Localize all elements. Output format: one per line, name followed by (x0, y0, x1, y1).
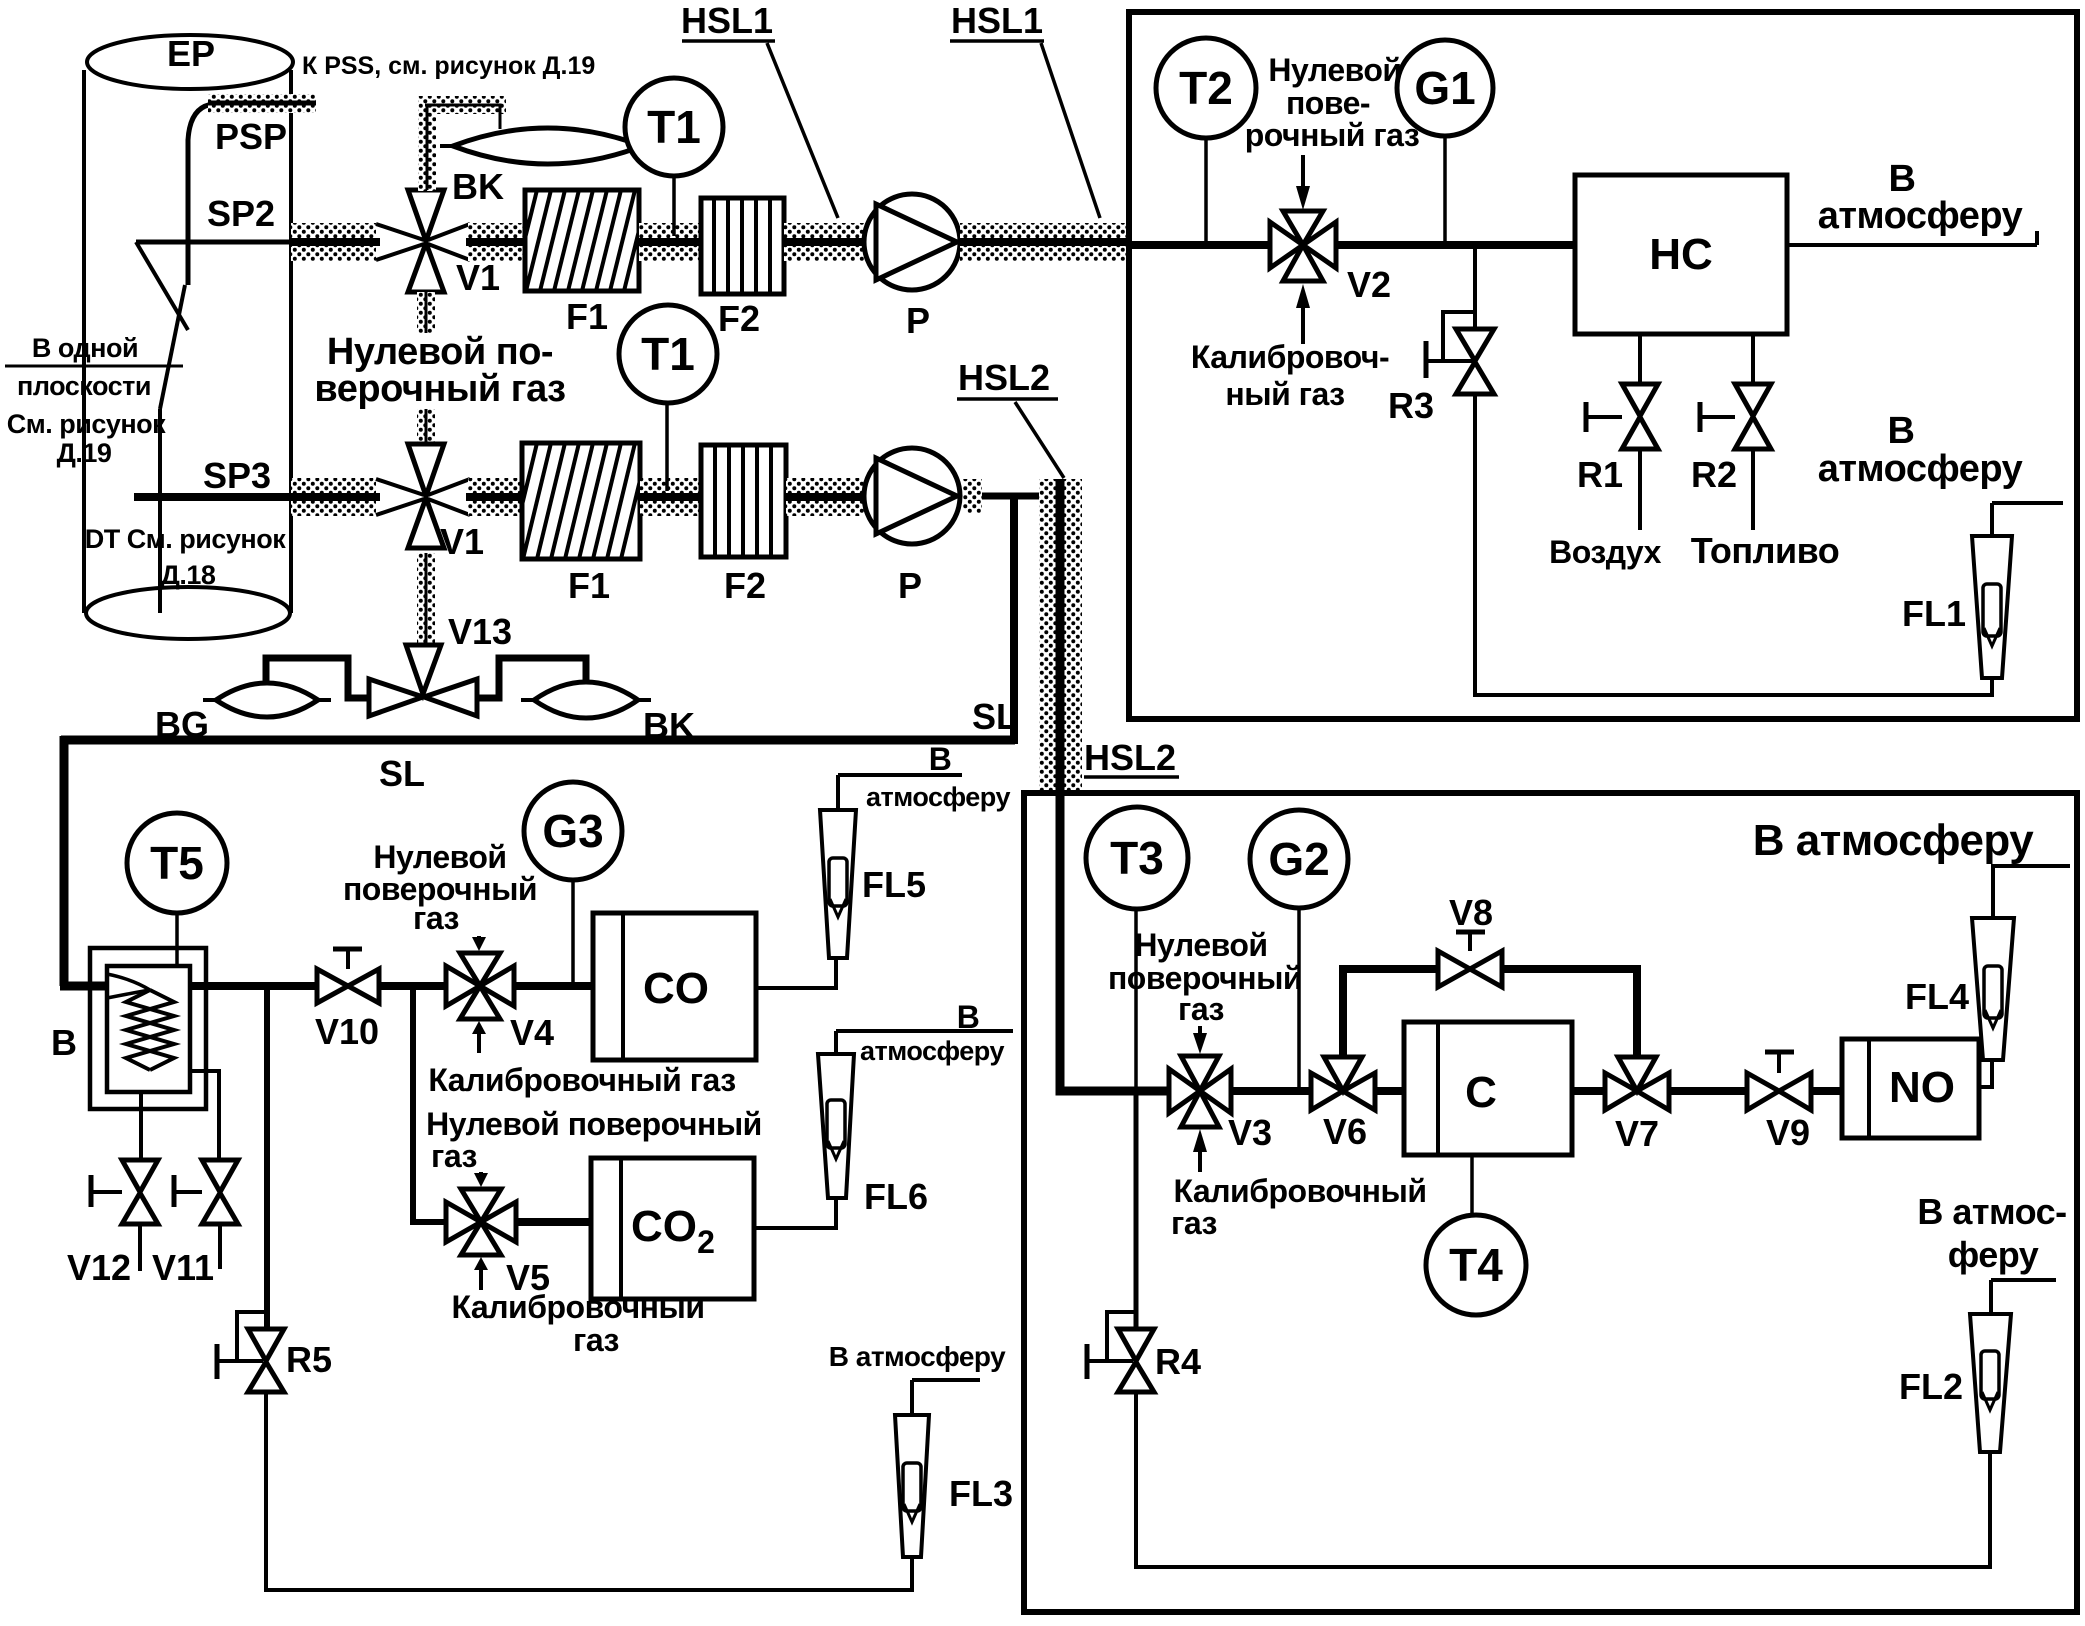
valve V2 (1270, 211, 1336, 281)
wire SL tee down (1010, 497, 1018, 744)
valve V11 stem (190, 1071, 219, 1160)
cooler B inner (107, 966, 190, 1092)
arrow zero gas into V2 (1301, 155, 1305, 190)
svg-text:FL6: FL6 (864, 1176, 928, 1217)
svg-text:T3: T3 (1110, 832, 1164, 884)
svg-text:V10: V10 (315, 1011, 379, 1052)
wire SL main horizontal (61, 736, 1015, 745)
svg-text:газ: газ (431, 1138, 477, 1174)
svg-text:Д.19: Д.19 (57, 438, 112, 468)
svg-text:NO: NO (1889, 1063, 1955, 1112)
svg-text:R4: R4 (1155, 1341, 1201, 1382)
wire V13 to BG (266, 658, 369, 698)
instrument T1 lower (665, 403, 669, 491)
svg-text:HSL1: HSL1 (681, 0, 773, 41)
instrument T4 (1470, 1155, 1474, 1215)
svg-text:FL1: FL1 (1902, 593, 1966, 634)
wire SP3 heated band wall to valve (291, 478, 376, 516)
probe inner diagonal b (136, 242, 188, 330)
probe inner diagonal a (160, 285, 185, 409)
svg-text:G1: G1 (1414, 62, 1475, 114)
bag BG (216, 683, 318, 717)
svg-text:В: В (929, 741, 952, 777)
wire junction down to V5 (413, 986, 446, 1222)
valve V5 (446, 1189, 516, 1255)
svg-text:HSL2: HSL2 (958, 357, 1050, 398)
bag BK lower (534, 682, 638, 718)
regulator R1 (1638, 334, 1642, 384)
wire SL left down to cooler (60, 736, 69, 986)
svg-text:В: В (957, 999, 980, 1035)
cooler B outer (90, 948, 206, 1109)
svg-text:CO: CO (643, 964, 709, 1013)
wire NO to FL4 (1979, 1060, 1992, 1087)
svg-text:P: P (906, 300, 930, 341)
svg-text:газ: газ (1171, 1205, 1217, 1241)
arrow cal gas into V3 (1193, 1129, 1207, 1152)
svg-text:феру: феру (1948, 1234, 2039, 1275)
wire main line box1 (1129, 241, 1270, 249)
wire B to R5 junction (264, 986, 270, 1330)
wire HSL2 inside box2 (1060, 793, 1169, 1091)
analyzer NO (1842, 1039, 1979, 1138)
svg-text:BK: BK (452, 166, 504, 207)
svg-text:Нулевой: Нулевой (1268, 52, 1401, 88)
wire SP2 cone left (376, 224, 424, 260)
svg-text:C: C (1465, 1068, 1497, 1117)
svg-text:Топливо: Топливо (1691, 530, 1840, 571)
svg-text:SP3: SP3 (203, 455, 271, 496)
svg-text:В атмос-: В атмос- (1917, 1191, 2066, 1232)
svg-text:В атмосферу: В атмосферу (1753, 816, 2034, 865)
instrument T3 (1134, 909, 1138, 1087)
regulator R3 (1473, 245, 1477, 329)
svg-text:R3: R3 (1388, 385, 1434, 426)
valve V1 upper (408, 190, 444, 292)
svg-text:V1: V1 (456, 257, 500, 298)
svg-text:F2: F2 (724, 565, 766, 606)
instrument T5 (175, 913, 179, 966)
wire SP2 heated band wall to valve (291, 223, 376, 261)
svg-text:Калибровоч-: Калибровоч- (1191, 339, 1389, 375)
wire CO2 to FL6 (754, 1198, 836, 1228)
instrument T2 (1204, 138, 1208, 241)
valve V1 lower (408, 444, 444, 548)
arrow zero gas into V4 (477, 936, 481, 940)
svg-text:ный газ: ный газ (1225, 376, 1344, 412)
regulator R2 (1751, 334, 1755, 384)
valve V12 (122, 1160, 158, 1224)
regulator R4 (1134, 1091, 1139, 1329)
probe SP2 line (136, 240, 296, 245)
svg-text:В одной: В одной (32, 333, 138, 363)
wire C to V7 (1572, 1087, 1605, 1095)
svg-text:B: B (51, 1022, 77, 1063)
svg-text:плоскости: плоскости (17, 371, 151, 401)
svg-text:CO: CO (631, 1202, 697, 1251)
svg-text:Калибровочный: Калибровочный (1174, 1173, 1427, 1209)
svg-text:пове-: пове- (1286, 85, 1370, 121)
cooler B taper (107, 974, 150, 998)
svg-text:FL3: FL3 (949, 1473, 1013, 1514)
svg-text:PSP: PSP (215, 116, 287, 157)
probe inner vertical (158, 409, 162, 613)
box analyzer cabinet NO (1024, 793, 2077, 1612)
valve V3 (1169, 1056, 1231, 1127)
analyzer CO2 (591, 1158, 754, 1299)
wire V6 to C (1375, 1087, 1404, 1095)
valve V10 (317, 969, 379, 1003)
svg-text:R1: R1 (1577, 454, 1623, 495)
wire SP2 cone right (428, 224, 470, 260)
arrow zero gas into V3 (1198, 1026, 1202, 1034)
valve V7 (1605, 1057, 1669, 1110)
svg-text:газ: газ (573, 1322, 619, 1358)
instrument G1 (1443, 136, 1447, 241)
svg-text:V8: V8 (1449, 892, 1493, 933)
svg-text:V7: V7 (1615, 1113, 1659, 1154)
svg-text:К PSS, см. рисунок Д.19: К PSS, см. рисунок Д.19 (302, 52, 595, 80)
valve V12 stem (139, 1092, 143, 1160)
filter F2 upper (701, 198, 784, 294)
wire band F1-F2 upper (639, 223, 701, 261)
svg-text:атмосферу: атмосферу (866, 782, 1010, 812)
probe PSP vertical (188, 104, 214, 285)
svg-text:FL4: FL4 (1905, 976, 1969, 1017)
svg-text:В атмосферу: В атмосферу (829, 1341, 1006, 1372)
svg-text:G3: G3 (542, 805, 603, 857)
box analyzer cabinet HC (1129, 12, 2077, 719)
svg-text:V1: V1 (440, 521, 484, 562)
wire V8 bypass to V7 (1502, 969, 1637, 1057)
wire CO to FL5 (756, 958, 836, 988)
svg-text:SL: SL (972, 696, 1018, 737)
svg-text:V13: V13 (448, 611, 512, 652)
instrument G2 (1297, 908, 1301, 1087)
svg-text:V4: V4 (510, 1012, 554, 1053)
svg-text:См. рисунок: См. рисунок (7, 409, 166, 439)
analyzer CO (593, 913, 756, 1060)
svg-text:V3: V3 (1228, 1112, 1272, 1153)
wire R3 drain to FL1 (1475, 394, 1992, 695)
wire band F1-F2 lower (640, 478, 701, 516)
flowmeter FL6 (818, 1054, 854, 1198)
svg-text:P: P (898, 565, 922, 606)
svg-text:Воздух: Воздух (1549, 534, 1662, 570)
analyzer C (1404, 1022, 1572, 1155)
wire band F2-P upper (784, 223, 864, 261)
svg-text:V11: V11 (152, 1247, 214, 1288)
flowmeter FL5 (820, 810, 856, 958)
svg-text:F1: F1 (566, 296, 608, 337)
wire P to HSL2 corner (982, 493, 1045, 500)
svg-text:EP: EP (167, 33, 215, 74)
svg-text:газ: газ (1178, 991, 1224, 1027)
svg-text:HSL2: HSL2 (1084, 737, 1176, 778)
svg-text:F1: F1 (568, 565, 610, 606)
svg-text:В: В (1888, 410, 1915, 452)
wire band P to box upper (960, 223, 1129, 261)
svg-text:Нулевой поверочный: Нулевой поверочный (426, 1106, 762, 1142)
probe PSP heated stub (208, 94, 316, 113)
wire V3 to V6 (1231, 1087, 1311, 1095)
valve V4 (446, 953, 514, 1019)
svg-text:T1: T1 (647, 101, 701, 153)
svg-text:FL5: FL5 (862, 864, 926, 905)
wire V6 bypass to V8 (1343, 969, 1438, 1057)
probe SP3 line (134, 493, 296, 501)
filter F1 lower (522, 443, 640, 559)
svg-text:T1: T1 (641, 328, 695, 380)
svg-text:газ: газ (413, 900, 459, 936)
svg-text:V6: V6 (1323, 1111, 1367, 1152)
instrument G3 (571, 880, 575, 982)
svg-text:верочный газ: верочный газ (314, 368, 565, 410)
wire V4 to CO (514, 982, 593, 990)
cooler B coil (126, 990, 174, 1070)
wire V9 to NO (1811, 1087, 1842, 1095)
flowmeter FL1 (1990, 503, 1994, 536)
exhaust pipe EP cylinder (84, 35, 293, 639)
svg-text:Нулевой по-: Нулевой по- (327, 331, 553, 373)
svg-text:2: 2 (697, 1224, 715, 1260)
valve V9 (1747, 1073, 1811, 1110)
svg-text:R2: R2 (1691, 454, 1737, 495)
wire V5 to CO2 (516, 1218, 591, 1226)
svg-text:T5: T5 (150, 837, 204, 889)
flowmeter FL4 (1972, 918, 2014, 1060)
svg-text:Д.18: Д.18 (161, 560, 216, 590)
svg-text:рочный газ: рочный газ (1245, 117, 1420, 153)
arrow zero gas into V5 (479, 1172, 483, 1176)
filter F2 lower (701, 445, 786, 557)
wire SP2 band to F1 (468, 223, 525, 261)
svg-text:Калибровочный газ: Калибровочный газ (428, 1062, 735, 1098)
svg-text:SP2: SP2 (207, 193, 275, 234)
valve V8 (1438, 951, 1502, 987)
analyzer HC (1575, 175, 1787, 334)
svg-text:V12: V12 (67, 1247, 131, 1288)
wire HC outlet vent (1787, 243, 2037, 247)
svg-text:HSL1: HSL1 (951, 0, 1043, 41)
wire R4 drain to FL2 (1136, 1392, 1990, 1567)
wire band F2-P lower (786, 478, 864, 516)
arrow cal gas into V4 (472, 1021, 486, 1034)
arrow cal gas into V2 (1296, 284, 1310, 308)
svg-text:Нулевой: Нулевой (373, 839, 506, 875)
valve V6 (1311, 1057, 1375, 1110)
svg-text:DT См. рисунок: DT См. рисунок (85, 524, 286, 554)
valve BK elbow upper (418, 100, 436, 191)
wire V7 to V9 (1669, 1087, 1747, 1095)
svg-text:атмосферу: атмосферу (860, 1036, 1004, 1066)
svg-text:Нулевой: Нулевой (1134, 927, 1267, 963)
svg-text:T2: T2 (1179, 62, 1233, 114)
svg-text:T4: T4 (1449, 1239, 1503, 1291)
svg-text:F2: F2 (718, 298, 760, 339)
svg-text:G2: G2 (1268, 833, 1329, 885)
pump P lower (864, 448, 960, 544)
svg-text:атмосферу: атмосферу (1818, 195, 2023, 237)
svg-text:R5: R5 (286, 1339, 332, 1380)
pump P upper (864, 194, 960, 290)
svg-text:В: В (1889, 158, 1916, 200)
filter F1 upper (525, 190, 639, 291)
line HSL2 vertical band (1039, 479, 1082, 791)
wire V13 to BK (477, 658, 586, 698)
svg-text:FL2: FL2 (1899, 1366, 1963, 1407)
svg-text:V9: V9 (1766, 1112, 1810, 1153)
valve V13 stub from V1 (417, 553, 435, 645)
wire V10 to V4 (379, 982, 446, 990)
instrument T1 upper (672, 176, 676, 236)
valve V11 (202, 1160, 238, 1224)
zero gas stub above V1 lower (417, 409, 435, 444)
flowmeter FL2 (1970, 1314, 2011, 1452)
wire SP3 cone left (376, 479, 424, 515)
svg-text:HC: HC (1649, 230, 1713, 279)
wire B outlet (190, 982, 317, 990)
bag BK upper (453, 128, 642, 164)
svg-text:V2: V2 (1347, 264, 1391, 305)
wire SP3 cone right (428, 479, 470, 515)
zero gas stub below V1 upper (417, 292, 435, 333)
regulator R5 (237, 1312, 268, 1360)
flowmeter FL3 (895, 1415, 929, 1557)
wire coupler after P lower (963, 479, 982, 513)
svg-text:атмосферу: атмосферу (1818, 448, 2023, 490)
wire SP3 band to F1 (468, 478, 522, 516)
svg-text:SL: SL (379, 753, 425, 794)
arrow cal gas into V5 (474, 1257, 488, 1270)
valve V13 (406, 645, 441, 694)
wire R5 drain to FL3 (266, 1392, 912, 1590)
